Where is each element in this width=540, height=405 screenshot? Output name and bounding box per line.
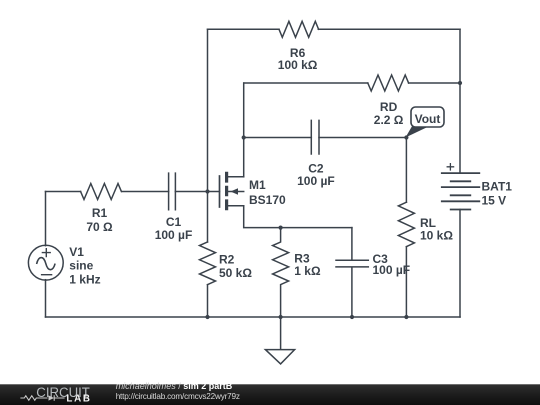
wire MOSFET source down and right to C3 corner xyxy=(244,206,352,228)
svg-text:RD: RD xyxy=(380,100,398,114)
wire RL bottom to bottom rail xyxy=(405,247,407,317)
wire right rail bottom (battery - down and corner) xyxy=(459,210,461,318)
node Vout dot xyxy=(404,135,408,139)
svg-text:2.2 Ω: 2.2 Ω xyxy=(374,113,404,127)
resistor R3 xyxy=(273,228,289,317)
svg-text:15 V: 15 V xyxy=(482,193,507,207)
capacitor C2 xyxy=(311,120,319,154)
mosfet M1 gate wire xyxy=(208,191,220,193)
source V1 minus sign xyxy=(42,274,52,276)
svg-text:BAT1: BAT1 xyxy=(482,179,513,193)
svg-text:1 kHz: 1 kHz xyxy=(69,272,100,286)
svg-text:R2: R2 xyxy=(219,253,235,267)
wire V1 bottom lead xyxy=(45,280,47,317)
battery BAT1 plates xyxy=(442,173,480,209)
wire bottom rail xyxy=(46,316,461,318)
svg-text:R1: R1 xyxy=(92,206,108,220)
svg-text:100 kΩ: 100 kΩ xyxy=(278,58,318,72)
svg-text:michaelholmes / sim 2 partB: michaelholmes / sim 2 partB xyxy=(116,381,233,391)
node: ground dot xyxy=(279,315,283,319)
battery BAT1 plus sign xyxy=(447,164,453,170)
wire RD row: corner at x244 to resistor, resistor to right rail xyxy=(244,82,460,84)
ground stem xyxy=(280,317,282,349)
source V1 sine symbol xyxy=(37,258,56,270)
wire C2 row right segment to Vout node xyxy=(319,137,406,139)
node: C3 bottom dot xyxy=(350,315,354,319)
node: source/R3 dot xyxy=(279,226,283,230)
capacitor C3 riser and plates xyxy=(336,228,368,317)
wire right rail top (R6 corner down to battery +) xyxy=(459,29,461,173)
wire RL riser from Vout node xyxy=(405,138,407,203)
node: RD right rail dot xyxy=(458,81,462,85)
mosfet M1 body arrow xyxy=(231,188,239,195)
svg-text:50 kΩ: 50 kΩ xyxy=(219,266,252,280)
resistor R6 xyxy=(279,21,319,37)
Vout flag box xyxy=(411,107,444,127)
node: RL bottom dot xyxy=(404,315,408,319)
svg-text:100 µF: 100 µF xyxy=(155,228,193,242)
capacitor C1 xyxy=(169,173,176,210)
wire R1 row: V1 corner to R1, R1 to C1, C1 to gate node xyxy=(46,191,208,193)
footer bar xyxy=(0,384,540,405)
svg-text:sine: sine xyxy=(69,259,93,273)
source V1 circle xyxy=(28,245,63,280)
svg-text:http://circuitlab.com/cmcvs22w: http://circuitlab.com/cmcvs22wyr79z xyxy=(116,392,240,401)
resistor R1 xyxy=(81,184,122,200)
wire V1 top lead xyxy=(45,192,47,246)
mosfet M1 channel bars xyxy=(225,172,228,210)
svg-text:100 µF: 100 µF xyxy=(297,174,335,188)
wire gate node down to R2 xyxy=(207,192,209,243)
svg-text:100 µF: 100 µF xyxy=(373,263,411,277)
wire drain riser x=243.7 from RD row to MOSFET drain xyxy=(243,83,245,177)
node: R2 bottom dot xyxy=(205,315,209,319)
wire left riser x=207.5 top rail to gate node xyxy=(207,29,209,191)
footer logo diode xyxy=(49,395,55,400)
svg-text:V1: V1 xyxy=(69,245,84,259)
svg-text:Vout: Vout xyxy=(415,112,441,126)
mosfet M1 drain stub xyxy=(228,176,244,178)
svg-text:LAB: LAB xyxy=(66,393,91,404)
source V1 plus sign xyxy=(42,249,50,257)
ground triangle xyxy=(265,350,294,364)
svg-text:BS170: BS170 xyxy=(249,193,286,207)
resistor RD xyxy=(368,75,409,91)
footer logo squiggle xyxy=(20,395,64,400)
resistor R2 xyxy=(200,242,216,285)
svg-text:M1: M1 xyxy=(249,178,266,192)
Vout flag tail xyxy=(407,127,427,137)
mosfet M1 gate bar xyxy=(219,176,221,207)
wire C2 row left segment xyxy=(244,137,312,139)
svg-text:70 Ω: 70 Ω xyxy=(86,220,113,234)
node: drain/C2 junction dot xyxy=(242,135,246,139)
node: gate node dot xyxy=(205,189,209,193)
wire top rail from gate riser to right rail xyxy=(208,28,461,30)
wire R2 bottom to bottom rail xyxy=(207,285,209,317)
svg-text:10 kΩ: 10 kΩ xyxy=(420,228,453,242)
mosfet M1 body wire xyxy=(228,191,244,193)
svg-text:1 kΩ: 1 kΩ xyxy=(294,264,321,278)
resistor RL xyxy=(398,202,414,246)
mosfet M1 source stub xyxy=(228,205,244,207)
